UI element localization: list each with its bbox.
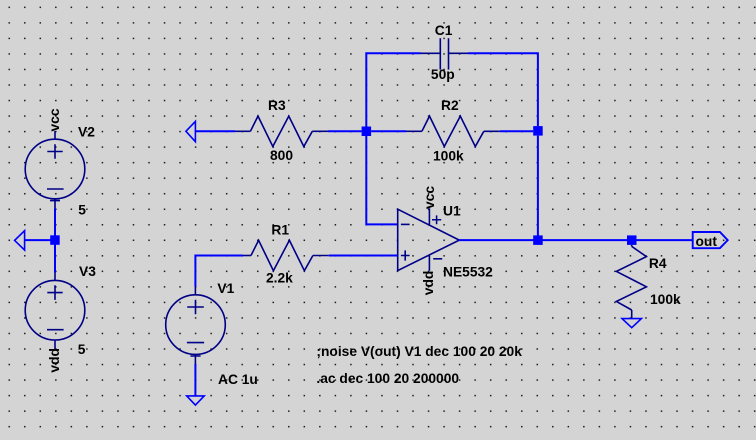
capacitor C1 — [421, 38, 469, 69]
voltage source V1 — [166, 295, 226, 364]
svg-text:R2: R2 — [441, 98, 459, 113]
ground arrow flag left of junction — [15, 231, 25, 250]
ground symbol below R4 — [622, 319, 641, 328]
wire vcc stub to V2 top — [54, 131, 56, 139]
svg-text:100k: 100k — [433, 149, 464, 164]
svg-text:50p: 50p — [431, 67, 455, 82]
svg-text:AC 1u: AC 1u — [218, 372, 258, 387]
svg-text:2.2k: 2.2k — [266, 270, 293, 285]
resistor R4 — [616, 245, 646, 319]
wire R1 to op-amp plus input — [329, 255, 398, 257]
resistor R3 — [235, 116, 328, 146]
svg-text:R1: R1 — [271, 223, 289, 238]
svg-text:out: out — [696, 234, 718, 249]
ground symbol below V1 — [187, 396, 205, 405]
wire stub to V1 top — [194, 287, 196, 295]
svg-text:.ac dec 100 20 200000: .ac dec 100 20 200000 — [316, 371, 459, 386]
wire feedback right vertical down to output — [537, 136, 539, 236]
wire junction to R2 — [371, 130, 406, 132]
svg-text:vdd: vdd — [421, 271, 436, 296]
svg-text:5: 5 — [78, 202, 86, 217]
wire arrow to R3 — [195, 130, 235, 132]
wire V2 bottom to V3 top — [54, 209, 56, 273]
svg-text:NE5532: NE5532 — [443, 264, 493, 279]
voltage source V2 — [25, 139, 85, 208]
wire R2 to right junction — [500, 130, 533, 132]
wire junction to left arrow — [25, 239, 55, 241]
svg-text:V3: V3 — [79, 264, 96, 279]
ground arrow flag left of R3 — [186, 121, 196, 141]
svg-text:800: 800 — [270, 148, 293, 163]
svg-text:V1: V1 — [217, 281, 234, 296]
junction node R3/R2/feedback — [362, 127, 372, 137]
svg-text:5: 5 — [78, 342, 86, 357]
svg-text:R4: R4 — [649, 256, 667, 271]
wire C1 right down to R2 right junction — [468, 53, 538, 126]
svg-text:vdd: vdd — [47, 348, 62, 373]
port out flag — [693, 232, 728, 248]
svg-text:C1: C1 — [435, 23, 453, 38]
svg-text:vcc: vcc — [47, 108, 62, 131]
svg-text:;noise V(out) V1 dec 100 20 20: ;noise V(out) V1 dec 100 20 20k — [316, 344, 522, 359]
junction node output/feedback — [533, 235, 543, 245]
wire R3 to junction — [328, 130, 362, 132]
svg-text:R3: R3 — [268, 98, 286, 113]
junction node R2 right / feedback — [533, 126, 543, 136]
junction node between V2 and V3 — [50, 235, 60, 245]
wire output of op-amp — [459, 239, 693, 241]
svg-text:V2: V2 — [78, 124, 95, 139]
svg-text:100k: 100k — [650, 292, 681, 307]
wire V1 top corner to R1 — [195, 256, 243, 287]
op-amp U1 — [398, 208, 460, 270]
svg-text:vcc: vcc — [422, 186, 437, 209]
voltage source V3 — [25, 280, 85, 350]
wire feedback left vertical up to C1 row — [366, 53, 420, 126]
resistor R1 — [243, 240, 329, 270]
wire stub to V3 top — [54, 273, 56, 282]
junction node output/R4 — [627, 235, 637, 245]
svg-text:U1: U1 — [443, 204, 461, 219]
wire V1 bottom to ground — [194, 364, 196, 396]
resistor R2 — [406, 116, 500, 146]
wire inverting input from junction — [366, 136, 397, 225]
